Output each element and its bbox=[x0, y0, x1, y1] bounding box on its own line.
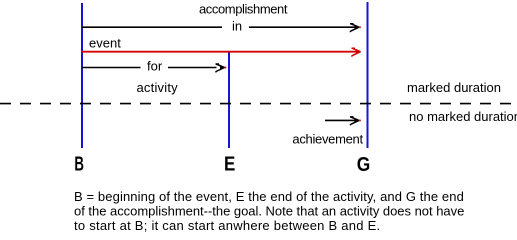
svg-text:activity: activity bbox=[137, 80, 179, 95]
arrowhead accomplishment (black, red tip) bbox=[350, 24, 361, 33]
vertical line E bbox=[228, 52, 230, 148]
svg-text:achievement: achievement bbox=[292, 132, 363, 147]
arrowhead achievement (black, red tip) bbox=[350, 117, 361, 126]
wire: event red line bbox=[81, 51, 357, 53]
svg-text:marked duration: marked duration bbox=[407, 80, 501, 95]
svg-text:G: G bbox=[357, 154, 371, 176]
wire: accomplishment arrow left segment bbox=[82, 26, 222, 28]
wire: for arrow left segment bbox=[82, 67, 141, 69]
svg-text:E: E bbox=[224, 154, 235, 176]
wire: for arrow right segment bbox=[168, 67, 217, 69]
svg-text:B = beginning of the event, E: B = beginning of the event, E the end of… bbox=[74, 189, 464, 204]
wire: achievement arrow bbox=[325, 119, 356, 121]
svg-text:to start at B; it can start an: to start at B; it can start anwhere betw… bbox=[74, 218, 380, 233]
svg-text:B: B bbox=[74, 154, 84, 176]
arrowhead for (black, red tip) bbox=[215, 64, 226, 73]
wire: accomplishment arrow right segment bbox=[249, 26, 355, 28]
vertical line B bbox=[81, 3, 83, 148]
svg-text:accomplishment: accomplishment bbox=[199, 1, 288, 16]
svg-text:no marked duration: no marked duration bbox=[409, 109, 517, 124]
svg-text:event: event bbox=[89, 36, 121, 51]
svg-text:in: in bbox=[232, 19, 242, 34]
svg-text:for: for bbox=[147, 59, 163, 74]
arrowhead event (red) bbox=[351, 48, 361, 57]
dashed separator line bbox=[0, 103, 511, 105]
vertical line G bbox=[367, 2, 369, 148]
svg-text:of the accomplishment--the goa: of the accomplishment--the goal. Note th… bbox=[74, 204, 464, 219]
